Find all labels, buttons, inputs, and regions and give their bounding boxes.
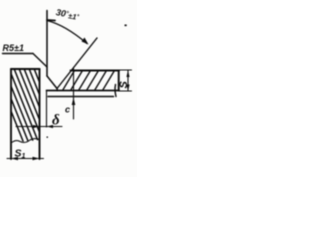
dimension S1 label xyxy=(15,148,26,161)
thickness S label xyxy=(118,81,130,89)
svg-text:δ: δ xyxy=(52,113,60,129)
gap dimension line xyxy=(16,126,62,128)
right plate bottom face xyxy=(47,90,120,92)
right plate top face xyxy=(71,70,120,72)
dimension S1 line xyxy=(7,158,44,160)
root face label c xyxy=(65,105,70,115)
angle arc arrowhead xyxy=(82,38,89,45)
radius leader line xyxy=(33,54,47,68)
radius callout underline xyxy=(3,53,34,55)
scan speck below plate xyxy=(47,137,49,138)
groove right bevel face with extension to angle arc xyxy=(57,38,97,89)
angle value label 30°±1° xyxy=(55,7,80,22)
root face callout leader with up arrow xyxy=(73,68,75,120)
gap extension line xyxy=(46,91,48,128)
radius callout label R5±1 xyxy=(3,43,24,53)
scan speck top right xyxy=(125,25,127,27)
dimension S1 arrowheads xyxy=(11,157,40,161)
thickness S dimension line xyxy=(127,71,129,92)
angle extension line (vertical reference) xyxy=(46,11,48,77)
svg-text:R5±1: R5±1 xyxy=(3,43,24,53)
groove left bevel face xyxy=(47,76,57,89)
left plate break line xyxy=(11,139,40,143)
angle dimension arc xyxy=(47,20,87,44)
gap dimension arrowheads xyxy=(33,125,53,128)
left plate hatching xyxy=(0,66,63,141)
root line (weld root / c line) xyxy=(48,96,114,98)
gap label delta xyxy=(52,113,60,129)
svg-text:S: S xyxy=(118,81,130,89)
thickness S arrowheads xyxy=(126,71,129,92)
thickness S extension lines xyxy=(119,70,132,91)
root face tick xyxy=(56,89,58,91)
right plate hatching xyxy=(53,68,116,93)
svg-text:c: c xyxy=(65,105,70,115)
right plate end face xyxy=(118,71,120,91)
root line end hook xyxy=(114,85,117,97)
left plate outline xyxy=(11,69,40,159)
